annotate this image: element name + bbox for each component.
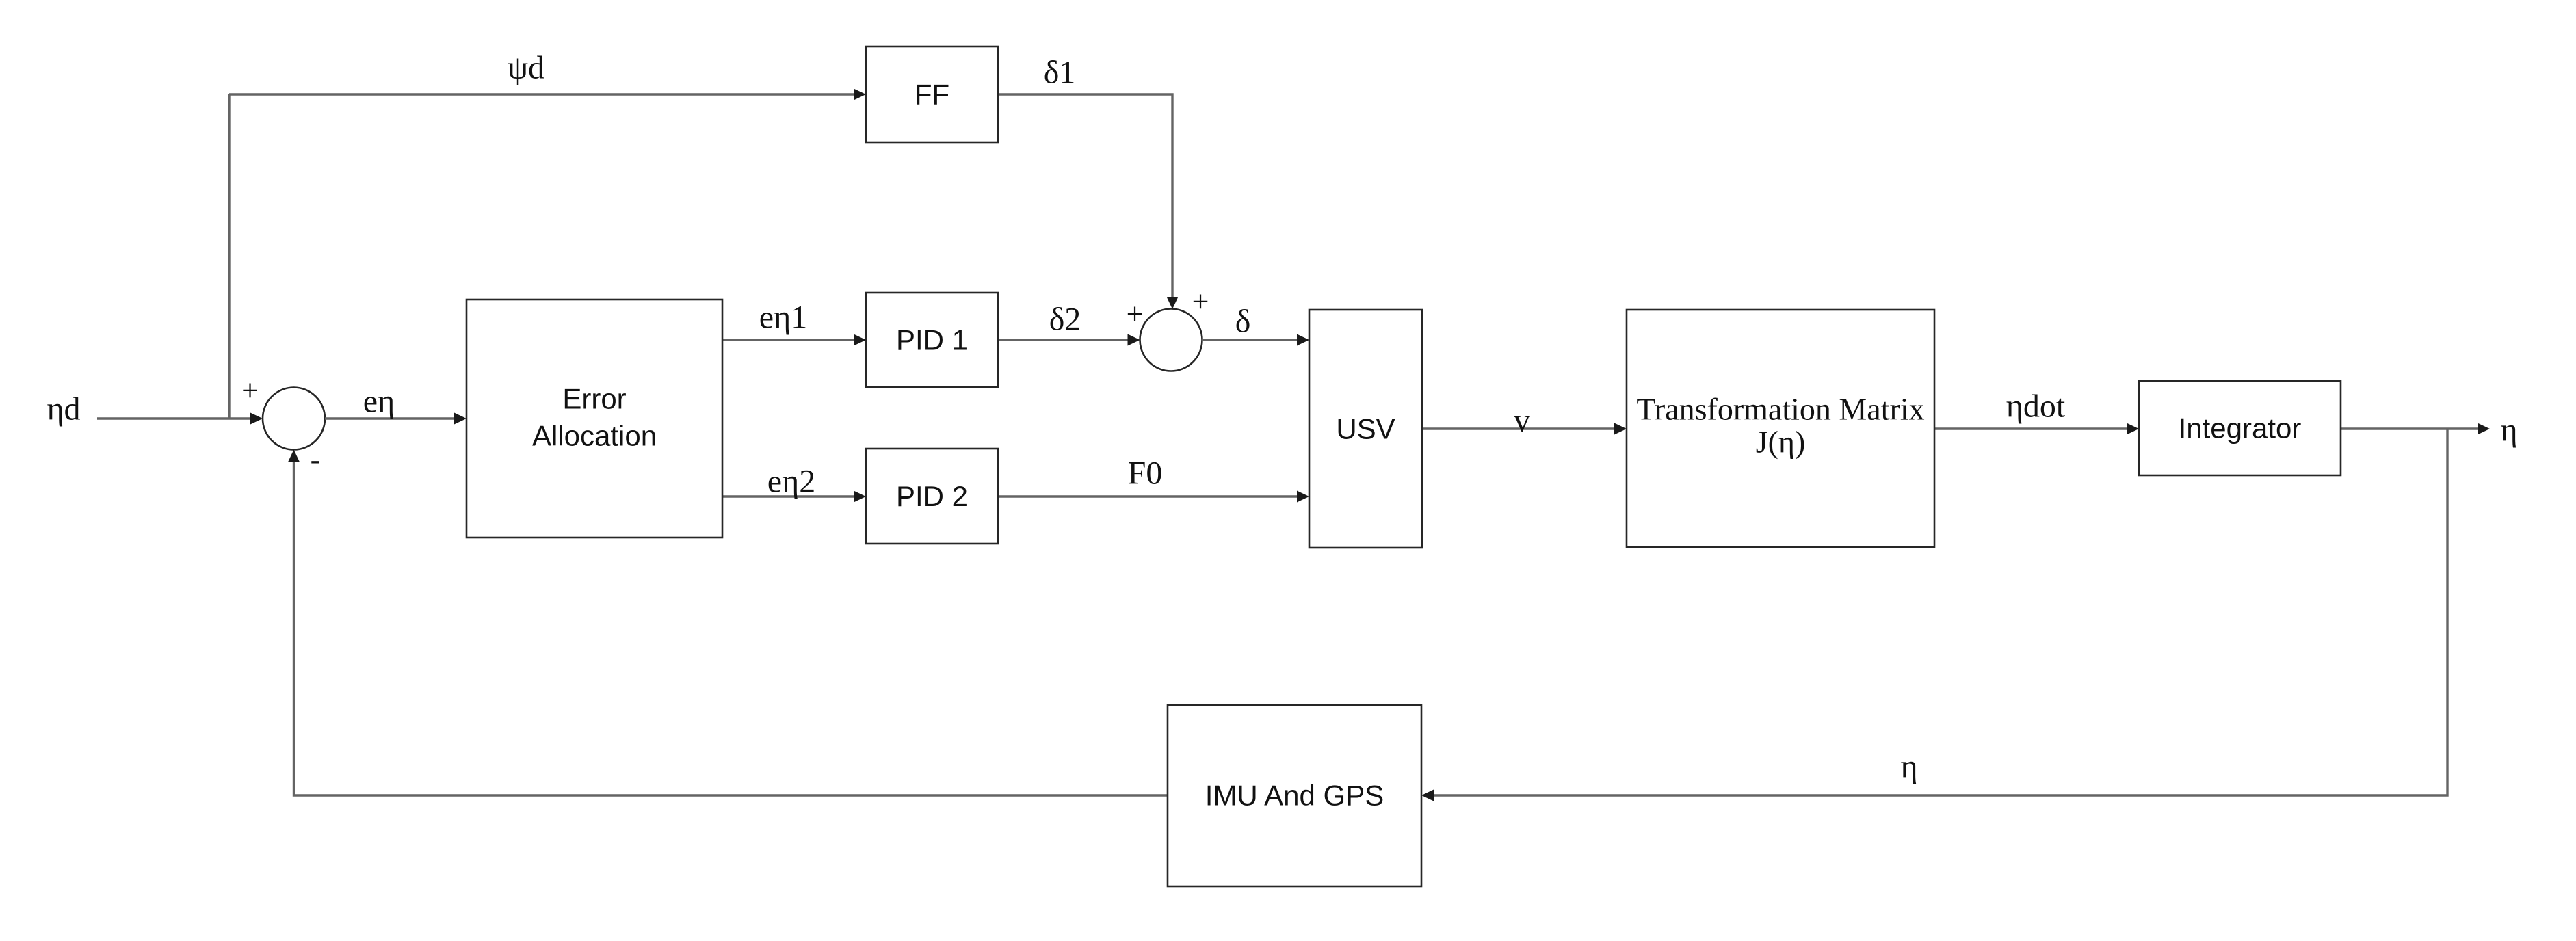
svg-text:J(η): J(η) bbox=[1756, 425, 1806, 460]
wire v bbox=[1422, 423, 1627, 435]
block IMU And GPS bbox=[1168, 705, 1421, 886]
wire feedback IMU to S1 bbox=[288, 450, 1168, 796]
block PID 1 bbox=[866, 293, 998, 387]
wire eη1 bbox=[722, 334, 866, 346]
svg-text:ηdot: ηdot bbox=[2006, 388, 2066, 425]
svg-text:-: - bbox=[311, 443, 321, 477]
svg-text:FF: FF bbox=[915, 79, 949, 111]
wire eη2 bbox=[722, 491, 866, 503]
wire FF output δ1 bbox=[998, 94, 1179, 309]
svg-text:δ2: δ2 bbox=[1049, 302, 1081, 338]
svg-text:δ: δ bbox=[1235, 304, 1251, 340]
block Transformation Matrix J(η) bbox=[1627, 310, 1934, 547]
svg-text:+: + bbox=[1192, 285, 1209, 319]
wire S2 to USV δ bbox=[1202, 334, 1310, 346]
svg-text:Allocation: Allocation bbox=[532, 420, 657, 452]
svg-text:eη: eη bbox=[363, 384, 395, 420]
wire S1 to Error Allocation bbox=[325, 413, 466, 425]
summer S2 bbox=[1140, 309, 1202, 371]
svg-text:eη2: eη2 bbox=[767, 464, 815, 500]
svg-text:η: η bbox=[1900, 749, 1917, 785]
svg-text:η: η bbox=[2500, 412, 2517, 449]
svg-text:Integrator: Integrator bbox=[2179, 412, 2302, 445]
svg-text:Error: Error bbox=[562, 383, 626, 415]
block PID 2 bbox=[866, 449, 998, 544]
wire ηd input bbox=[97, 413, 263, 425]
block USV bbox=[1309, 310, 1422, 548]
svg-text:PID 2: PID 2 bbox=[896, 480, 968, 512]
wire F0 bbox=[998, 491, 1309, 503]
svg-text:v: v bbox=[1514, 403, 1530, 439]
wire ηdot bbox=[1934, 423, 2139, 435]
svg-text:δ1: δ1 bbox=[1044, 55, 1076, 91]
summer S1 bbox=[263, 388, 325, 450]
block Error Allocation bbox=[466, 300, 722, 538]
wire Integrator output η bbox=[2341, 423, 2490, 435]
svg-text:eη1: eη1 bbox=[759, 300, 807, 336]
wire ψd to FF bbox=[229, 89, 866, 101]
svg-text:F0: F0 bbox=[1128, 455, 1163, 492]
block Integrator bbox=[2139, 381, 2341, 475]
node branch junction ψd bbox=[228, 94, 230, 419]
wire PID1 output δ2 bbox=[998, 334, 1140, 346]
wire feedback right down bbox=[1421, 429, 2447, 801]
svg-text:+: + bbox=[241, 374, 259, 408]
svg-text:+: + bbox=[1127, 297, 1144, 331]
svg-text:USV: USV bbox=[1336, 413, 1395, 445]
svg-text:PID 1: PID 1 bbox=[896, 324, 968, 356]
svg-text:ψd: ψd bbox=[508, 50, 544, 86]
svg-text:ηd: ηd bbox=[47, 391, 80, 427]
svg-text:Transformation Matrix: Transformation Matrix bbox=[1636, 392, 1924, 427]
block FF bbox=[866, 47, 998, 142]
svg-text:IMU And GPS: IMU And GPS bbox=[1205, 780, 1384, 812]
